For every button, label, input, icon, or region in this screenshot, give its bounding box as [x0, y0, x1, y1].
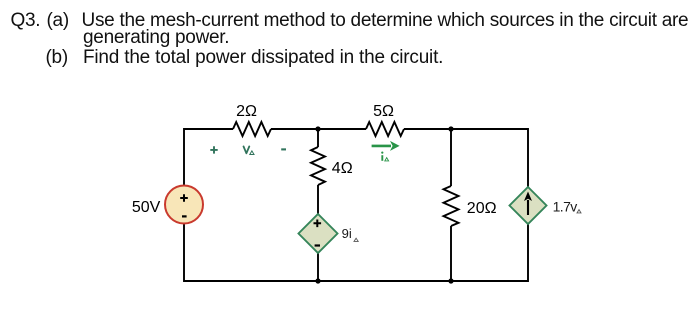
svg-text:50V: 50V — [132, 199, 161, 216]
svg-text:5Ω: 5Ω — [373, 103, 394, 120]
dependent current source 1.7vD (diamond) — [510, 187, 547, 224]
resistor R2 5ohm (top right) — [366, 122, 404, 136]
current label iD (green) — [381, 155, 383, 161]
question text line 2 — [83, 28, 229, 47]
question text line 3 — [46, 48, 68, 67]
independent voltage source V1 50V (circle) — [165, 186, 203, 224]
9iD plus sign — [314, 220, 322, 228]
node dot top-right — [448, 126, 453, 131]
node dot bottom-right — [448, 278, 453, 283]
wire middle branch upper — [317, 129, 319, 147]
wire 20ohm branch (upper and lower stubs) — [450, 129, 452, 281]
svg-text:4Ω: 4Ω — [332, 160, 353, 177]
svg-text:1.7v: 1.7v — [553, 199, 578, 215]
wire outer loop: top-left segment, left branch, bottom wire, right branch, top-right segment — [184, 129, 528, 281]
wire middle branch lower — [317, 253, 319, 281]
resistor R4 20ohm — [444, 186, 459, 226]
V1 minus sign — [182, 215, 187, 217]
question text line 1 — [11, 11, 41, 30]
node voltage label vD (teal) — [244, 146, 250, 153]
resistor R3 4ohm (middle branch) — [311, 147, 325, 185]
wire middle branch between 4ohm and 9iD source — [317, 185, 319, 214]
1.7vD internal arrow — [527, 200, 529, 215]
branch current arrow iD (green) — [372, 145, 391, 148]
svg-text:9i: 9i — [342, 226, 352, 241]
V1 plus sign — [180, 194, 188, 202]
node dot top-mid — [315, 126, 320, 131]
svg-text:2Ω: 2Ω — [236, 103, 257, 120]
resistor R1 2ohm (top left) — [233, 122, 271, 136]
wire top-middle segment — [271, 128, 366, 130]
polarity minus of vD (teal) — [281, 148, 286, 150]
9iD minus sign — [315, 244, 320, 246]
svg-text:20Ω: 20Ω — [467, 200, 497, 217]
node dot bottom-mid — [315, 278, 320, 283]
polarity plus of vD (teal) — [210, 146, 217, 153]
dependent voltage source 9iD (diamond) — [299, 214, 338, 253]
